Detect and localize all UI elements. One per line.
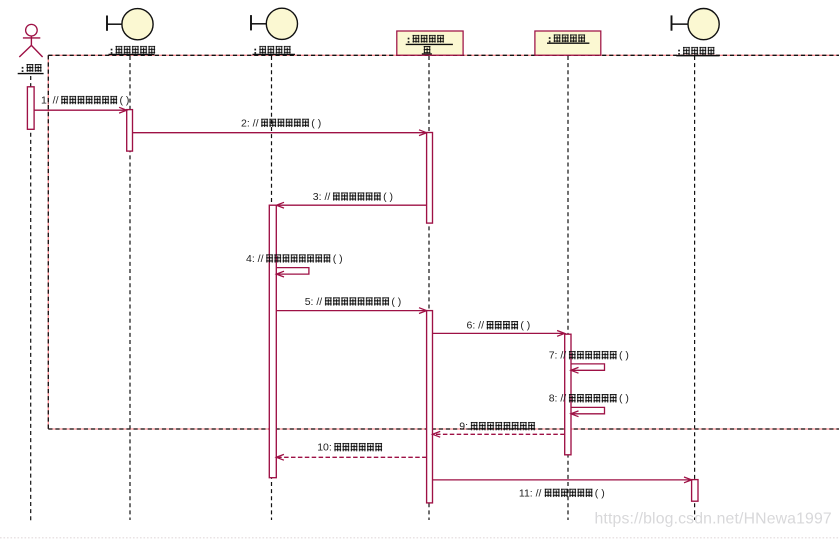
svg-text:( ): ( ): [383, 191, 393, 203]
svg-text:8: //: 8: //: [549, 393, 567, 405]
svg-text:( ): ( ): [333, 253, 343, 265]
svg-text:( ): ( ): [120, 95, 130, 107]
svg-text:5: //: 5: //: [305, 296, 323, 308]
svg-text:( ): ( ): [311, 117, 321, 129]
svg-text:3: //: 3: //: [313, 191, 331, 203]
svg-text:9:: 9:: [459, 421, 468, 433]
svg-text:11: //: 11: //: [519, 487, 542, 499]
svg-text:1: //: 1: //: [41, 95, 59, 107]
svg-text:( ): ( ): [595, 487, 605, 499]
svg-text:4: //: 4: //: [246, 253, 264, 265]
svg-text:2: //: 2: //: [241, 117, 259, 129]
svg-text:https://blog.csdn.net/HNewa199: https://blog.csdn.net/HNewa1997: [595, 511, 832, 528]
svg-text:( ): ( ): [520, 320, 530, 332]
svg-text:( ): ( ): [619, 350, 629, 362]
svg-text:( ): ( ): [619, 393, 629, 405]
svg-text:7: //: 7: //: [549, 350, 567, 362]
svg-text:6: //: 6: //: [467, 320, 485, 332]
svg-text:10:: 10:: [317, 442, 332, 454]
svg-text:( ): ( ): [391, 296, 401, 308]
